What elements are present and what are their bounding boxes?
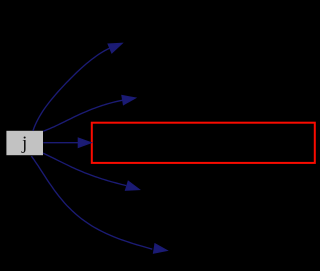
edge j->red node (horizontal arrow) xyxy=(43,138,91,148)
edge j->n5 (bottom arrow) xyxy=(31,156,167,253)
edge j->n2 xyxy=(43,95,136,131)
edge j->n4 xyxy=(43,153,139,190)
svg-text:j: j xyxy=(21,133,27,154)
node j (gray box) xyxy=(6,131,43,155)
edge j->n1 (top arrow) xyxy=(33,43,122,131)
node (red box, label hidden) xyxy=(92,123,315,163)
